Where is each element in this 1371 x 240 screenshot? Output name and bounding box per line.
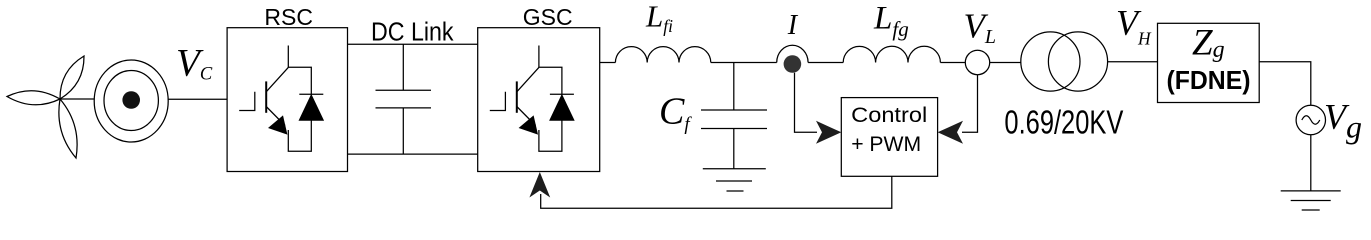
svg-text:GSC: GSC [523, 4, 573, 30]
svg-text:VC: VC [176, 41, 213, 84]
svg-text:(FDNE): (FDNE) [1167, 65, 1251, 95]
svg-text:0.69/20KV: 0.69/20KV [1004, 103, 1123, 140]
svg-text:Vg: Vg [1324, 96, 1362, 144]
svg-text:VL: VL [964, 7, 997, 49]
svg-text:Lfi: Lfi [645, 0, 673, 36]
svg-text:Control: Control [851, 103, 927, 127]
svg-text:VH: VH [1116, 2, 1152, 48]
svg-text:DC Link: DC Link [371, 19, 454, 47]
svg-text:RSC: RSC [264, 4, 313, 30]
svg-text:Zg: Zg [1192, 23, 1225, 64]
svg-text:I: I [787, 10, 799, 41]
svg-text:+ PWM: + PWM [851, 132, 921, 156]
svg-text:Cf: Cf [659, 90, 692, 135]
svg-text:Lfg: Lfg [873, 0, 909, 41]
